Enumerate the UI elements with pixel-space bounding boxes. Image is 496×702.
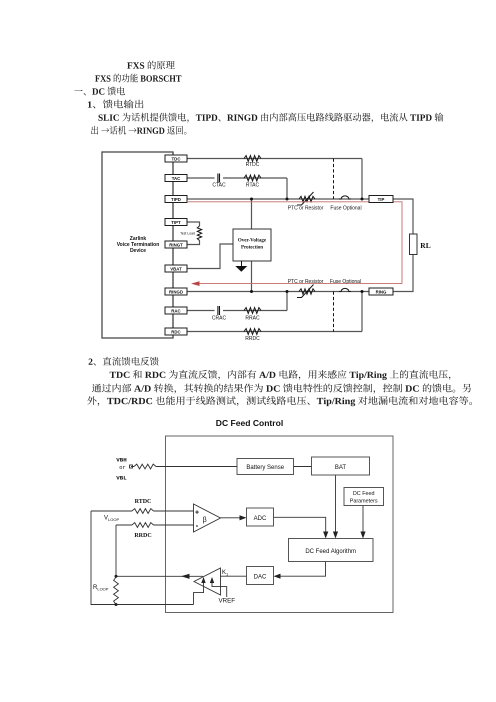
pin VBAT bbox=[165, 265, 187, 272]
svg-text:PTC or Resistor: PTC or Resistor bbox=[288, 206, 324, 212]
resistor RTDC bbox=[244, 156, 261, 162]
svg-text:Parameters: Parameters bbox=[350, 499, 378, 505]
body text bbox=[74, 61, 472, 407]
svg-text:TAC: TAC bbox=[172, 176, 181, 181]
fuse bypass dashed (ring) bbox=[333, 292, 335, 332]
svg-text:DC Feed Algorithm: DC Feed Algorithm bbox=[305, 549, 356, 555]
junction node RING/RDC bbox=[361, 290, 364, 293]
wire loop reference arrow bbox=[194, 580, 204, 605]
svg-text:TIPT: TIPT bbox=[171, 220, 181, 225]
resistor RL bbox=[410, 234, 418, 255]
svg-text:Test Load: Test Load bbox=[180, 232, 195, 236]
fuse optional (ring side) bbox=[339, 288, 351, 291]
fuse bypass dashed (tip) bbox=[333, 159, 335, 200]
svg-text:CTAC: CTAC bbox=[212, 183, 226, 189]
svg-text:Protection: Protection bbox=[241, 246, 263, 251]
resistor RRDC bbox=[132, 523, 154, 528]
svg-text:RTDC: RTDC bbox=[135, 499, 152, 505]
svg-text:RTAC: RTAC bbox=[246, 183, 260, 189]
svg-text:RRDC: RRDC bbox=[245, 336, 260, 342]
wire VBH/VBL input bbox=[131, 466, 237, 468]
resistor RLOOP bbox=[114, 577, 119, 605]
resistor RTAC bbox=[244, 175, 261, 181]
wire over-voltage vertical bbox=[251, 199, 253, 292]
svg-text:TIP: TIP bbox=[378, 197, 385, 202]
svg-text:RRAC: RRAC bbox=[245, 316, 260, 322]
svg-text:RTDC: RTDC bbox=[246, 162, 260, 168]
svg-text:RLOOP: RLOOP bbox=[93, 585, 109, 592]
wire beta to ADC bbox=[221, 517, 242, 519]
wire RRDC to RLOOP bbox=[115, 525, 117, 577]
wire parameters to algorithm bbox=[362, 506, 364, 533]
pin RINGD bbox=[165, 288, 187, 295]
wire K1 to RLOOP bbox=[116, 575, 203, 577]
svg-text:RAC: RAC bbox=[171, 308, 181, 313]
terminal VB bbox=[130, 465, 133, 468]
block DC feed algorithm bbox=[289, 539, 374, 562]
svg-text:TIPD: TIPD bbox=[171, 197, 181, 202]
pin TIPD bbox=[165, 196, 187, 203]
PTC or resistor (tip side) bbox=[299, 196, 315, 201]
wire BAT to algorithm bbox=[335, 475, 337, 532]
pin RAC bbox=[165, 307, 187, 314]
junction node RLOOP bottom bbox=[115, 603, 118, 606]
svg-text:VREF: VREF bbox=[219, 598, 236, 605]
op-amp K1 bbox=[194, 568, 221, 595]
current loop (red) tip side bbox=[188, 202, 402, 286]
block BAT bbox=[312, 457, 370, 475]
svg-text:TDC: TDC bbox=[172, 156, 182, 161]
svg-text:RINGT: RINGT bbox=[169, 242, 183, 247]
svg-text:BAT: BAT bbox=[335, 465, 347, 471]
svg-text:DAC: DAC bbox=[254, 575, 267, 581]
wire battery sense to BAT bbox=[294, 466, 312, 468]
junction node TIPD/TAC bbox=[286, 198, 289, 201]
wire ADC to algorithm bbox=[274, 517, 326, 532]
wire DAC to K1 bbox=[221, 575, 247, 577]
svg-text:ADC: ADC bbox=[254, 516, 267, 522]
svg-text:RDC: RDC bbox=[171, 329, 181, 334]
block ADC bbox=[247, 508, 274, 526]
svg-text:RINGD: RINGD bbox=[169, 289, 183, 294]
wire algorithm to DAC bbox=[280, 562, 326, 577]
resistor test load bbox=[197, 226, 201, 241]
pin RDC bbox=[165, 328, 187, 335]
junction node RINGD/RAC bbox=[286, 290, 289, 293]
terminal TIP bbox=[369, 196, 393, 203]
pin RINGT bbox=[165, 241, 187, 248]
wire loop sense vertical bbox=[91, 511, 194, 605]
wire VBAT to protection bbox=[187, 244, 233, 269]
arrow to RLOOP bbox=[181, 574, 190, 579]
svg-text:VLOOP: VLOOP bbox=[104, 516, 119, 523]
junction node RLOOP top bbox=[115, 575, 118, 578]
node: internal pin bus (right edge) bbox=[172, 152, 174, 338]
svg-text:DC Feed Control: DC Feed Control bbox=[216, 418, 283, 428]
svg-text:Fuse Optional: Fuse Optional bbox=[330, 279, 361, 285]
ground bbox=[241, 261, 243, 266]
pin TIPT bbox=[165, 219, 187, 226]
op-amp beta bbox=[194, 504, 221, 532]
PTC or resistor (ring side) bbox=[299, 289, 315, 294]
over-voltage protection box U1 bbox=[233, 229, 271, 261]
resistor RTDC bbox=[132, 509, 154, 514]
svg-text:RING: RING bbox=[376, 290, 387, 295]
pin TDC bbox=[165, 155, 187, 162]
wire VREF arrow bbox=[212, 580, 227, 597]
svg-text:VBAT: VBAT bbox=[170, 266, 182, 271]
resistor RRAC bbox=[244, 308, 261, 314]
svg-text:Battery Sense: Battery Sense bbox=[246, 465, 284, 471]
svg-text:Device: Device bbox=[130, 248, 146, 254]
wire TIP to RL bbox=[393, 199, 413, 234]
wire RINGD line to RING bbox=[187, 291, 369, 293]
current loop (red) ring side with arrow bbox=[197, 283, 402, 285]
svg-text:Fuse Optional: Fuse Optional bbox=[330, 206, 361, 212]
svg-text:DC Feed: DC Feed bbox=[353, 491, 375, 497]
wire RRDC input bbox=[116, 524, 194, 526]
junction node TIP/TDC bbox=[361, 198, 364, 201]
svg-text:-: - bbox=[196, 521, 199, 530]
capacitor CRAC bbox=[218, 306, 220, 315]
block DC feed parameters bbox=[344, 488, 384, 506]
wire RAC line bbox=[187, 292, 287, 311]
wire: control outer box bbox=[166, 436, 394, 613]
svg-text:RRDC: RRDC bbox=[134, 533, 151, 539]
svg-text:PTC or Resistor: PTC or Resistor bbox=[288, 279, 324, 285]
svg-text:+: + bbox=[195, 509, 199, 516]
svg-text:Over-Voltage: Over-Voltage bbox=[238, 239, 267, 244]
terminal RING bbox=[369, 288, 393, 295]
wire: device outline box bbox=[102, 152, 173, 338]
svg-text:VBL: VBL bbox=[116, 475, 127, 482]
wire TIPD line to TIP bbox=[187, 198, 369, 200]
resistor battery bbox=[134, 464, 156, 469]
svg-text:β: β bbox=[203, 517, 207, 524]
wire TDC feed line bbox=[187, 159, 362, 200]
svg-text:RL: RL bbox=[420, 241, 430, 250]
resistor RRDC bbox=[244, 329, 261, 335]
svg-text:CRAC: CRAC bbox=[212, 316, 227, 322]
block battery sense bbox=[237, 459, 294, 475]
wire TIPT test load loop bbox=[187, 222, 200, 245]
wire RDC feed line bbox=[187, 292, 362, 332]
wire RTDC input bbox=[91, 510, 194, 512]
block DAC bbox=[247, 567, 274, 585]
svg-text:K1: K1 bbox=[222, 570, 229, 577]
junction node RINGD/OVP bbox=[250, 290, 253, 293]
fuse optional (tip side) bbox=[339, 196, 351, 199]
svg-text:or: or bbox=[119, 465, 125, 471]
wire RL to RING bbox=[393, 255, 413, 292]
junction node TIPD/OVP bbox=[250, 198, 253, 201]
wire TAC line bbox=[187, 178, 287, 199]
capacitor CTAC bbox=[218, 174, 220, 183]
svg-text:VBH: VBH bbox=[116, 457, 127, 464]
pin TAC bbox=[165, 175, 187, 182]
